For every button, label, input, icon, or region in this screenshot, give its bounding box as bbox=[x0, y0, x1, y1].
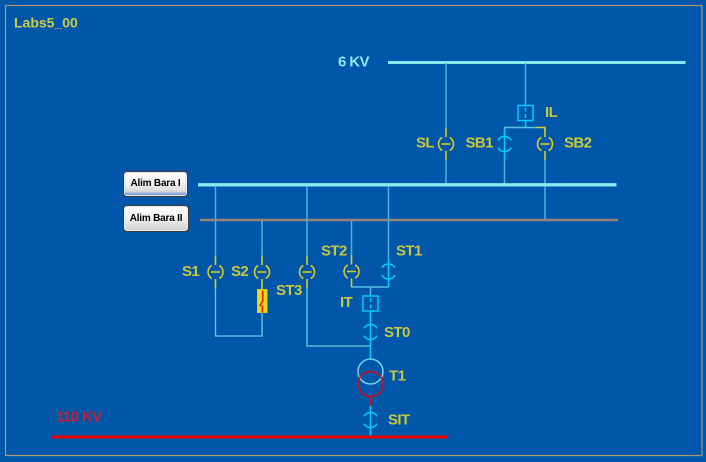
breaker box IL bbox=[518, 106, 533, 121]
label ST1 bbox=[396, 243, 422, 260]
label SB1 bbox=[466, 135, 494, 152]
svg-text:Labs5_00: Labs5_00 bbox=[14, 15, 78, 31]
svg-text:ST2: ST2 bbox=[321, 243, 347, 260]
label SB2 bbox=[564, 135, 592, 152]
bus 110KV bbox=[51, 436, 447, 439]
disconnector SL (open) bbox=[438, 129, 453, 161]
wire IL feeder from 6KV bus bbox=[525, 63, 527, 106]
wire S1 feeder from Bara I bbox=[215, 186, 217, 256]
wire S1-S2 bottom connector bbox=[216, 289, 263, 337]
button Alim Bara I bbox=[123, 171, 188, 197]
svg-text:S1: S1 bbox=[182, 263, 199, 280]
breaker SIT (closed) bbox=[364, 412, 377, 427]
label 110 KV bbox=[56, 409, 102, 426]
disconnector S1 (open) bbox=[208, 256, 223, 289]
svg-text:SL: SL bbox=[416, 135, 434, 152]
button Alim Bara II bbox=[123, 205, 189, 232]
breaker ST1 (closed) bbox=[382, 258, 395, 287]
label IT bbox=[340, 294, 353, 311]
wire ST1 feeder from Bara I bbox=[388, 186, 390, 258]
svg-text:6 KV: 6 KV bbox=[338, 54, 370, 71]
wire SL feeder from 6KV bus bbox=[445, 63, 447, 130]
label S1 bbox=[182, 263, 199, 280]
svg-text:ST0: ST0 bbox=[384, 324, 410, 341]
svg-text:SIT: SIT bbox=[388, 412, 410, 429]
svg-text:T1: T1 bbox=[389, 368, 406, 385]
label SL bbox=[416, 135, 434, 152]
disconnector ST3 (open) bbox=[299, 256, 314, 289]
breaker SB2 (open) bbox=[537, 128, 552, 160]
transformer T1 primary winding bbox=[358, 359, 383, 384]
transformer T1 secondary winding bbox=[358, 372, 383, 397]
wire SL to Bara I bbox=[445, 160, 447, 184]
label T1 bbox=[389, 368, 406, 385]
disconnector ST2 (open) bbox=[344, 255, 359, 287]
wire SB2 to Bara II bbox=[544, 160, 546, 220]
label SIT bbox=[388, 412, 410, 429]
label IL bbox=[545, 104, 558, 121]
wire T1 secondary lead (red) bbox=[370, 397, 372, 407]
wire IL box to splitter bbox=[525, 121, 527, 128]
svg-text:ST3: ST3 bbox=[276, 282, 302, 299]
bus Alim Bara II bbox=[200, 219, 618, 222]
fuse below S2 bbox=[258, 290, 268, 313]
svg-text:IL: IL bbox=[545, 104, 558, 121]
svg-text:ST1: ST1 bbox=[396, 243, 422, 260]
wire ST3 feeder from Bara I bbox=[306, 186, 308, 256]
breaker SB1 (closed) bbox=[498, 130, 511, 160]
svg-text:IT: IT bbox=[340, 294, 353, 311]
wire ST2 feeder from Bara II bbox=[351, 221, 353, 256]
wire ST3 down and across to transformer branch bbox=[307, 289, 371, 347]
title label Labs5_00 bbox=[14, 15, 78, 31]
breaker box IT bbox=[363, 296, 378, 311]
svg-text:110 KV: 110 KV bbox=[56, 409, 102, 426]
svg-text:SB2: SB2 bbox=[564, 135, 592, 152]
wire ST2/ST1 joiner bbox=[352, 287, 389, 296]
wire SB1 to Bara I bbox=[504, 160, 506, 184]
breaker ST0 (closed) bbox=[364, 324, 377, 339]
svg-text:S2: S2 bbox=[231, 263, 248, 280]
svg-text:SB1: SB1 bbox=[466, 135, 494, 152]
bus 6KV bbox=[388, 61, 686, 64]
wire S2 feeder from Bara II bbox=[261, 221, 263, 256]
disconnector S2 (open) bbox=[254, 256, 269, 291]
label 6 KV bbox=[338, 54, 370, 71]
wire T1 to SIT bbox=[370, 406, 372, 436]
bus Alim Bara I bbox=[198, 183, 617, 186]
label ST3 bbox=[276, 282, 302, 299]
label S2 bbox=[231, 263, 248, 280]
label ST0 bbox=[384, 324, 410, 341]
label ST2 bbox=[321, 243, 347, 260]
wire splitter to SB1/SB2 bbox=[505, 128, 546, 137]
wire IT box down through ST0 to T1 bbox=[370, 311, 372, 360]
